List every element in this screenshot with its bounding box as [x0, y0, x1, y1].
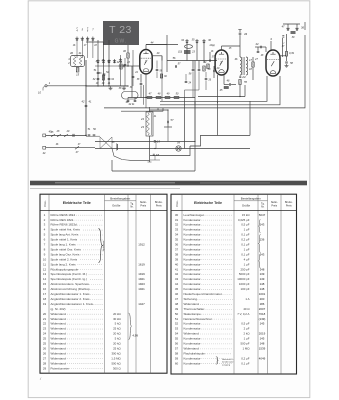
svg-text:Preis: Preis [140, 204, 146, 207]
svg-text:35: 35 [175, 238, 179, 242]
svg-text:Spule mittel 1. Kreis: Spule mittel 1. Kreis [51, 238, 78, 242]
svg-text:2 μF: 2 μF [244, 327, 250, 331]
resistor 55 [239, 80, 248, 97]
mains plug upper [43, 131, 86, 137]
svg-text:57: 57 [175, 346, 179, 350]
svg-text:4 μF: 4 μF [244, 257, 250, 261]
svg-text:139: 139 [260, 272, 265, 276]
wire staircase lower [112, 146, 190, 171]
fuse 28 [51, 130, 61, 137]
anode resistor row 47-50 [128, 74, 195, 99]
svg-text:186: 186 [260, 302, 265, 306]
wire lower left branch [121, 108, 163, 111]
svg-text:1,5 MΩ: 1,5 MΩ [111, 356, 121, 360]
svg-text:500 pF: 500 pF [241, 342, 250, 346]
svg-text:23: 23 [43, 327, 47, 331]
tube 3 (RES 164) [266, 37, 280, 76]
svg-text:41: 41 [79, 51, 82, 55]
svg-text:Kondensator: Kondensator [184, 327, 201, 331]
svg-text:42: 42 [175, 272, 179, 276]
grid capacitor 31 [118, 60, 132, 67]
svg-text:Kondensator: Kondensator [184, 252, 201, 256]
node junction dots left [85, 65, 128, 86]
wire right top [280, 24, 300, 56]
svg-text:42 41: 42 41 [129, 103, 136, 106]
switch contact row 25/26/27 [95, 59, 116, 63]
svg-text:Sperrkreisspule (Fernh. lg.): Sperrkreisspule (Fernh. lg.) [51, 277, 87, 281]
resistor 0.39 right edge [285, 34, 294, 61]
svg-text:0,1 μF: 0,1 μF [241, 233, 249, 237]
svg-text:Spulensatz: Spulensatz [102, 241, 105, 252]
tube2 legs [218, 75, 225, 103]
svg-text:T 23: T 23 [109, 24, 132, 36]
svg-text:148: 148 [260, 342, 265, 346]
svg-text:100 pF: 100 pF [241, 287, 250, 291]
svg-text:Größe: Größe [112, 204, 121, 208]
svg-text:24: 24 [140, 117, 144, 121]
svg-text:26: 26 [43, 346, 47, 350]
svg-text:300 Ω: 300 Ω [113, 366, 122, 370]
svg-text:Widerstand: Widerstand [51, 356, 67, 360]
svg-text:Netzanschlussschnur: Netzanschlussschnur [184, 317, 213, 321]
svg-text:45: 45 [175, 287, 179, 291]
svg-text:GW.: GW. [115, 39, 128, 45]
parts table left frame [40, 194, 167, 373]
svg-text:52: 52 [175, 322, 179, 326]
svg-text:Nr.: Nr. [261, 206, 265, 209]
svg-text:Kondensator: Kondensator [184, 238, 201, 242]
dial lamp 59 [176, 141, 181, 152]
svg-text:13: 13 [43, 272, 47, 276]
sperrkreis coil 15 [76, 68, 79, 77]
svg-text:36: 36 [175, 243, 179, 247]
svg-text:20 kΩ: 20 kΩ [113, 342, 121, 346]
svg-text:38: 38 [175, 252, 179, 256]
svg-text:18: 18 [43, 297, 47, 301]
svg-text:Kondensator: Kondensator [184, 356, 201, 360]
cap 38 39 under tube1 left [130, 74, 143, 98]
svg-text:Kondensator: Kondensator [184, 267, 201, 271]
labels near choke [153, 109, 160, 118]
svg-text:40: 40 [70, 51, 73, 55]
svg-text:Spule lang Osz. Kreis: Spule lang Osz. Kreis [51, 252, 80, 256]
svg-text:2 kΩ: 2 kΩ [243, 332, 250, 336]
svg-text:20 kΩ: 20 kΩ [113, 332, 121, 336]
svg-text:Kondensator: Kondensator [184, 361, 201, 365]
svg-text:1619: 1619 [138, 262, 145, 266]
svg-text:Kondensator: Kondensator [184, 243, 201, 247]
svg-text:Angleichkondensator 1. Kreis: Angleichkondensator 1. Kreis [51, 292, 91, 296]
svg-text:148: 148 [260, 287, 265, 291]
ground right edge [285, 64, 289, 67]
svg-text:(139): (139) [259, 317, 266, 321]
svg-text:56: 56 [175, 342, 179, 346]
small marks above band switch [75, 28, 89, 30]
svg-text:14(a): 14(a) [209, 44, 215, 47]
svg-text:51: 51 [175, 317, 179, 321]
svg-text:1 μF: 1 μF [244, 228, 250, 232]
svg-text:Kondensator: Kondensator [184, 277, 201, 281]
svg-text:Spule lang 1. Kreis: Spule lang 1. Kreis [51, 243, 77, 247]
switch 29 [64, 130, 87, 137]
svg-text:1427: 1427 [138, 302, 145, 306]
svg-text:7018: 7018 [259, 312, 266, 316]
svg-text:1021: 1021 [138, 287, 145, 291]
svg-text:49: 49 [175, 307, 179, 311]
parts table right header [175, 196, 293, 208]
svg-text:145: 145 [260, 337, 265, 341]
svg-text:25: 25 [43, 337, 47, 341]
svg-text:15 kΩ: 15 kΩ [242, 213, 250, 217]
svg-text:1539: 1539 [259, 346, 266, 350]
svg-text:25: 25 [95, 60, 99, 63]
svg-text:Widerstand: Widerstand [184, 302, 200, 306]
svg-text:23: 23 [140, 125, 144, 129]
svg-text:30 kΩ: 30 kΩ [113, 317, 121, 321]
ground left cluster b [122, 87, 126, 90]
svg-text:4049: 4049 [259, 356, 266, 360]
svg-text:20 kΩ: 20 kΩ [113, 312, 121, 316]
trimmer row top-left (band switch contacts) [75, 29, 94, 59]
parts table left rows [43, 213, 145, 370]
svg-text:21: 21 [43, 317, 47, 321]
svg-text:Widerstand: Widerstand [51, 346, 67, 350]
tube 2 (REN 904) [215, 50, 228, 75]
wires band switch verticals [86, 40, 115, 63]
svg-text:500 kΩ: 500 kΩ [111, 361, 121, 365]
svg-text:16: 16 [43, 287, 47, 291]
svg-text:Leuchtanzeiger: Leuchtanzeiger [184, 213, 205, 217]
svg-text:19: 19 [43, 302, 47, 306]
svg-text:Kondensator: Kondensator [184, 342, 201, 346]
svg-text:Rückkopplungsspule: Rückkopplungsspule [51, 267, 79, 271]
svg-text:15: 15 [43, 282, 47, 286]
svg-text:Spule lang Ant. Kreis: Spule lang Ant. Kreis [51, 233, 79, 237]
wire tube1 to grid [132, 66, 140, 98]
braces right table price groups [259, 219, 261, 268]
svg-text:1921: 1921 [138, 277, 145, 281]
wire tube1 top cap [146, 42, 178, 50]
svg-text:Kondensator: Kondensator [184, 218, 201, 222]
svg-text:Preis: Preis [156, 204, 162, 207]
svg-text:30: 30 [175, 213, 179, 217]
labels 41/42 mid-left [82, 100, 92, 108]
svg-text:Abstimmvorrichtung (Drehko): Abstimmvorrichtung (Drehko) [51, 287, 90, 291]
svg-text:47: 47 [175, 297, 179, 301]
wire segment y66 nodes [95, 65, 118, 66]
cap 24b agc [185, 74, 192, 85]
svg-text:1 μF: 1 μF [244, 247, 250, 251]
svg-text:24: 24 [43, 332, 47, 336]
wire vertical 184 [185, 98, 196, 149]
vertical drops from caps to bus [150, 142, 160, 160]
svg-text:37: 37 [175, 247, 179, 251]
svg-text:0,025 μF: 0,025 μF [238, 218, 250, 222]
svg-text:Spule lang 2. Kreis: Spule lang 2. Kreis [51, 262, 77, 266]
svg-text:10: 10 [43, 257, 47, 261]
extra res mid cluster [204, 61, 210, 69]
svg-text:59: 59 [175, 356, 179, 360]
svg-text:5000 pF: 5000 pF [239, 272, 250, 276]
wire choke bottom [148, 127, 169, 162]
res 50/51 bottom left [75, 128, 96, 154]
svg-text:22: 22 [43, 322, 47, 326]
svg-text:4,99: 4,99 [132, 334, 138, 338]
svg-text:Widerstand: Widerstand [184, 346, 200, 350]
cap 26 agc [205, 72, 212, 90]
svg-text:43: 43 [175, 277, 179, 281]
svg-text:Pos.: Pos. [43, 200, 47, 206]
svg-text:Kondensator: Kondensator [184, 228, 201, 232]
brace widerstand group price [129, 313, 139, 340]
svg-text:55: 55 [175, 337, 179, 341]
svg-text:Bestellangaben: Bestellangaben [110, 196, 130, 200]
svg-text:Sicherung: Sicherung [184, 297, 198, 301]
svg-text:28: 28 [43, 361, 47, 365]
dots bottom buses [154, 141, 195, 149]
svg-text:Kondensator: Kondensator [184, 223, 201, 227]
svg-text:39: 39 [175, 257, 179, 261]
svg-text:50: 50 [175, 312, 179, 316]
svg-text:12: 12 [43, 267, 47, 271]
brace right table bottom group [215, 355, 234, 366]
svg-text:Spule mittel 2. Kreis: Spule mittel 2. Kreis [51, 257, 78, 261]
svg-text:2019: 2019 [259, 332, 266, 336]
svg-text:0,1 μF: 0,1 μF [241, 361, 249, 365]
wire mid bus y60.5 [146, 35, 217, 72]
wire bottom bus 3 [112, 61, 195, 172]
svg-text:11: 11 [43, 262, 46, 266]
svg-text:Niederfrequenztransformator: Niederfrequenztransformator [184, 292, 222, 296]
svg-text:34: 34 [175, 233, 179, 237]
model badge T 23 GW [103, 21, 139, 45]
svg-text:Widerstand: Widerstand [51, 361, 67, 365]
svg-text:Pos.: Pos. [175, 200, 179, 206]
svg-text:0,5 μF: 0,5 μF [241, 322, 249, 326]
svg-text:0,39: 0,39 [289, 52, 294, 55]
wire step-down right side [190, 101, 218, 146]
wire step vertical 250 [218, 101, 251, 135]
svg-text:Spule mittel Osz. Kreis: Spule mittel Osz. Kreis [51, 247, 82, 251]
svg-text:26: 26 [101, 59, 105, 62]
cap 46 under tube2 [224, 80, 236, 86]
svg-text:149: 149 [260, 277, 265, 281]
wire screen supply [160, 76, 280, 105]
svg-text:5 kΩ: 5 kΩ [115, 337, 122, 341]
svg-text:148: 148 [260, 282, 265, 286]
svg-text:1000 pF: 1000 pF [239, 282, 250, 286]
ground left cluster a [109, 87, 113, 90]
svg-text:250 pF: 250 pF [241, 267, 250, 271]
wire anode vertical 162 [161, 56, 163, 102]
svg-text:44: 44 [175, 282, 179, 286]
junction dots cluster [85, 85, 240, 136]
svg-text:1919: 1919 [138, 272, 145, 276]
svg-text:58: 58 [175, 351, 179, 355]
svg-text:Röhre REN 1821: Röhre REN 1821 [51, 218, 74, 222]
svg-text:136: 136 [260, 238, 265, 242]
svg-text:0,5 μF: 0,5 μF [241, 223, 249, 227]
svg-text:1 MΩ: 1 MΩ [243, 346, 251, 350]
svg-text:1 A: 1 A [245, 297, 249, 301]
svg-text:1923: 1923 [138, 282, 145, 286]
resistor 23 hatched [178, 50, 196, 54]
svg-text:Angleichkondensator 2. Kreis: Angleichkondensator 2. Kreis [51, 297, 91, 301]
svg-text:41: 41 [175, 267, 179, 271]
svg-text:53: 53 [175, 327, 179, 331]
resistor 30 [123, 45, 129, 66]
cap 57 bottom [164, 110, 174, 127]
svg-text:Widerstand: Widerstand [51, 322, 67, 326]
cap 58 right edge [285, 62, 293, 65]
svg-text:Größe: Größe [242, 204, 251, 208]
res 22 column [116, 62, 122, 69]
svg-text:kondensator: kondensator [222, 361, 234, 364]
svg-text:20: 20 [43, 312, 47, 316]
svg-text:1 μF: 1 μF [244, 262, 250, 266]
svg-text:Widerstand: Widerstand [51, 342, 67, 346]
svg-text:Preis: Preis [271, 204, 277, 207]
svg-text:Röhre REN6 1814: Röhre REN6 1814 [51, 213, 76, 217]
svg-text:0,2 μF: 0,2 μF [241, 238, 249, 242]
footnote mark [39, 377, 42, 381]
coupling cap 43 above tube2 [222, 30, 248, 58]
antenna coil assembly (40/41) [67, 51, 84, 67]
svg-text:7 V, 0,2 A: 7 V, 0,2 A [237, 312, 249, 316]
svg-text:Flachdrahtspule: Flachdrahtspule [184, 351, 206, 355]
power transformer / choke 23 [140, 112, 153, 136]
tube 1 (REN 904) [140, 50, 152, 74]
svg-text:Röhre REN6 1823d: Röhre REN6 1823d [51, 223, 78, 227]
parts table left header [43, 196, 163, 208]
svg-text:29: 29 [43, 366, 47, 370]
svg-text:25 kΩ: 25 kΩ [113, 327, 121, 331]
parts table right rows [175, 213, 266, 365]
svg-text:1912: 1912 [138, 243, 145, 247]
svg-text:Widerstand: Widerstand [51, 317, 67, 321]
mains plug lower [43, 146, 95, 155]
svg-text:Potentiometer: Potentiometer [51, 366, 70, 370]
oscillator coil ellipse [185, 45, 193, 49]
svg-text:Angleichkondensatoren 1. Kreis: Angleichkondensatoren 1. Kreis [51, 302, 94, 306]
svg-text:Kondensator: Kondensator [184, 247, 201, 251]
svg-text:148: 148 [260, 267, 265, 271]
svg-text:10000 pF: 10000 pF [237, 277, 249, 281]
svg-text:17: 17 [43, 292, 47, 296]
svg-text:Widerstand: Widerstand [184, 332, 200, 336]
IF transformer coils [235, 57, 253, 75]
svg-text:Widerstand: Widerstand [51, 332, 67, 336]
svg-text:(13): (13) [178, 51, 182, 54]
svg-text:1001: 1001 [259, 292, 266, 296]
wire right edge supply [104, 22, 305, 108]
svg-text:60: 60 [175, 361, 179, 365]
svg-text:40: 40 [175, 262, 179, 266]
svg-text:54: 54 [175, 332, 179, 336]
extra marks tube3 region [257, 46, 285, 57]
svg-text:Thermoschalter: Thermoschalter [184, 307, 205, 311]
wire under-tube2 bus [198, 85, 245, 97]
svg-text:23: 23 [191, 51, 195, 54]
svg-text:(g. Nr. 202): (g. Nr. 202) [51, 307, 66, 311]
res 19 20 left cluster [96, 83, 111, 85]
electrolytic 18 [153, 153, 160, 157]
electrolytic cap 24 [239, 75, 246, 79]
svg-text:Widerstand: Widerstand [51, 351, 67, 355]
extra columns right of switch cluster [119, 50, 139, 86]
wire choke top [150, 107, 169, 112]
wire anode supply top [160, 76, 267, 101]
thick separator rule [30, 181, 307, 189]
svg-text:1 μF: 1 μF [244, 337, 250, 341]
svg-text:48: 48 [175, 302, 179, 306]
svg-text:Widerstand: Widerstand [51, 312, 67, 316]
wire grid bus [86, 63, 128, 86]
svg-text:46: 46 [175, 292, 179, 296]
svg-text:0,1 μF: 0,1 μF [241, 252, 249, 256]
svg-text:ausgang: ausgang [222, 364, 231, 366]
wire bottom bus 1 [95, 141, 195, 143]
svg-text:145: 145 [260, 322, 265, 326]
svg-text:Preis: Preis [286, 204, 292, 207]
svg-text:Netzanschl.-: Netzanschl.- [222, 358, 234, 361]
cap 59 detector [156, 61, 163, 79]
parts table right frame [171, 194, 297, 374]
svg-text:}: } [215, 355, 219, 365]
svg-text:5 kΩ: 5 kΩ [115, 322, 122, 326]
heater chain resistor [112, 141, 150, 160]
caps 42/43 below tube1 [127, 98, 137, 107]
svg-text:0,2 μF: 0,2 μF [241, 356, 249, 360]
res 60 detector [160, 74, 167, 78]
svg-text:24: 24 [241, 75, 246, 79]
svg-text:143: 143 [260, 223, 265, 227]
svg-text:Skalenlampe: Skalenlampe [184, 312, 202, 316]
labels 56/57 mid [173, 57, 181, 68]
svg-text:Abstimmkondens. Sperrkreis: Abstimmkondens. Sperrkreis [51, 282, 90, 286]
svg-text:Kondensator: Kondensator [184, 262, 201, 266]
wire antenna to input circuit [47, 85, 128, 87]
extra bottom-left labels [51, 131, 81, 146]
svg-text:200: 200 [260, 297, 265, 301]
svg-text:1: 1 [145, 60, 147, 64]
res 45 under tube2 [220, 86, 229, 92]
svg-text:Elektrische Teile: Elektrische Teile [194, 201, 222, 205]
svg-text:Kondensator: Kondensator [184, 233, 201, 237]
svg-text:33: 33 [175, 228, 179, 232]
wire long vertical chassis bus [85, 60, 87, 135]
svg-text:0,1 μF: 0,1 μF [241, 243, 249, 247]
wires mid cluster verticals [185, 71, 200, 97]
cap 51 left cluster [94, 69, 110, 75]
electrolytic right [282, 36, 284, 57]
svg-text:25 kΩ: 25 kΩ [113, 346, 121, 350]
svg-text:31: 31 [175, 218, 179, 222]
svg-text:Kondensator: Kondensator [184, 257, 201, 261]
svg-text:Bestellangaben: Bestellangaben [241, 196, 261, 200]
svg-text:14: 14 [43, 277, 47, 281]
res right of tube2 [252, 57, 259, 80]
coupling cap 44 to tube3 [255, 42, 266, 52]
svg-text:43: 43 [244, 32, 248, 36]
output trimmers top right 37/36 [282, 26, 305, 40]
heater leads tube1 [144, 85, 147, 108]
svg-text:2007: 2007 [259, 307, 266, 311]
voltage selector X [86, 136, 112, 148]
wire bottom bus 2 [95, 148, 250, 150]
svg-text:Sperrkreisspule (Fernh. M.): Sperrkreisspule (Fernh. M.) [51, 272, 88, 276]
tube1 anode lead right [152, 52, 162, 61]
